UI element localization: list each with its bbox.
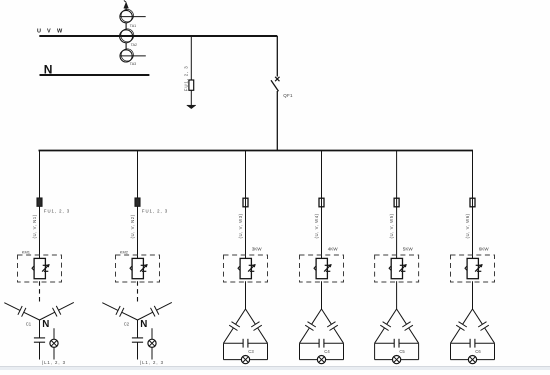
- wire feeder 1 drop from bus: [39, 151, 41, 199]
- svg-text:C2: C2: [124, 322, 130, 327]
- capacitor bank C4 delta bottom side with capacitor: [300, 342, 320, 344]
- svg-text:C4: C4: [324, 349, 330, 354]
- svg-text:FU1, 2, 3: FU1, 2, 3: [183, 65, 188, 91]
- wire fuse to contactor feeder 4: [321, 207, 323, 259]
- fuse FU feeder 3: [243, 198, 248, 207]
- svg-text:C3: C3: [248, 349, 254, 354]
- svg-text:U: U: [37, 29, 41, 35]
- svg-text:C6: C6: [475, 349, 481, 354]
- wire breaker to distribution bus: [276, 91, 278, 151]
- wire TA2-TA3: [125, 43, 127, 50]
- capacitor bank C6 delta bottom side with capacitor: [451, 342, 471, 344]
- svg-text:N: N: [140, 319, 147, 330]
- fuse FU feeder 2: [135, 198, 140, 206]
- wire contactor to capacitor bank 2 (dashed): [137, 281, 139, 304]
- svg-text:C5: C5: [399, 349, 405, 354]
- capacitor bank C4 delta right side: [322, 309, 332, 324]
- capacitor bank C2 star right branch: [138, 312, 153, 320]
- contactor 3KW in dashed enclosure: [224, 255, 268, 282]
- svg-text:TA2: TA2: [131, 43, 137, 47]
- wire feeder 5 drop from bus: [396, 151, 398, 199]
- wire TA1-TA2: [125, 23, 127, 30]
- fuse FU feeder 6: [470, 198, 475, 207]
- capacitor bank C1 star right branch: [40, 312, 55, 320]
- wire feeder 2 drop from bus: [137, 151, 139, 199]
- wire feeder 6 drop from bus: [472, 151, 474, 199]
- capacitor bank C4 delta left side: [312, 309, 322, 324]
- wire contactor to delta bank feeder 4: [321, 281, 323, 309]
- contactor KM2 in dashed enclosure: [116, 255, 160, 282]
- capacitor bank C5 delta right side: [397, 309, 407, 324]
- capacitor bank C6 delta left side: [463, 309, 473, 324]
- svg-text:C1: C1: [26, 322, 32, 327]
- svg-text:(U, V, W3): (U, V, W3): [238, 213, 243, 238]
- bus N neutral busbar: [40, 74, 150, 76]
- svg-text:N: N: [42, 319, 49, 330]
- svg-text:V: V: [47, 29, 51, 35]
- capacitor bank C3 delta right side: [246, 309, 256, 324]
- discharge loop with lamp feeder 4: [299, 343, 301, 359]
- CT TA1 current transformer: [120, 10, 132, 22]
- capacitor bank C5 delta bottom side with capacitor: [375, 342, 395, 344]
- wire fuse to contactor feeder 6: [472, 207, 474, 259]
- svg-text:FU1, 2, 3: FU1, 2, 3: [142, 209, 168, 214]
- capacitor bank C6 delta right side: [473, 309, 483, 324]
- svg-text:(U, V, W5): (U, V, W5): [389, 213, 394, 238]
- wire contactor to delta bank feeder 3: [245, 281, 247, 309]
- svg-text:6KW: 6KW: [479, 247, 490, 252]
- contactor 4KW in dashed enclosure: [300, 255, 344, 282]
- bus UVW main incoming busbar: [39, 35, 277, 37]
- wire contactor to delta bank feeder 5: [396, 281, 398, 309]
- fuse FU feeder 1: [37, 198, 42, 206]
- wire fuse to ground: [190, 90, 192, 105]
- svg-text:(U, V, N1): (U, V, N1): [32, 214, 37, 238]
- contactor 5KW in dashed enclosure: [375, 255, 419, 282]
- wire fuse to contactor feeder 3: [245, 207, 247, 259]
- svg-text:TA3: TA3: [130, 62, 136, 66]
- breaker QF1: [275, 77, 279, 81]
- CT TA3 current transformer: [120, 50, 132, 62]
- wire contactor to delta bank feeder 6: [472, 281, 474, 309]
- lamp branch feeder 2: [151, 328, 153, 339]
- svg-text:TA1: TA1: [130, 24, 136, 28]
- lamp branch feeder 1: [53, 328, 55, 339]
- svg-text:(L1, 2, 3: (L1, 2, 3: [140, 360, 164, 365]
- svg-text:QF1: QF1: [283, 93, 293, 98]
- capacitor bank C3 delta bottom side with capacitor: [224, 342, 244, 344]
- bottom status band: [0, 367, 550, 371]
- wire fuse to contactor feeder 2: [137, 207, 139, 259]
- discharge loop with lamp feeder 3: [223, 343, 225, 359]
- svg-text:KM1: KM1: [22, 249, 31, 254]
- wire bus to fuse FU1,2,3: [190, 36, 192, 80]
- svg-text:3KW: 3KW: [252, 247, 263, 252]
- fuse FU1,2,3 (voltage circuit): [189, 80, 194, 90]
- wire feeder 4 drop from bus: [321, 151, 323, 199]
- wire bus to breaker QF1: [276, 36, 278, 77]
- capacitor bank C2 star left branch: [102, 303, 118, 311]
- svg-text:(U, V, W4): (U, V, W4): [314, 213, 319, 238]
- discharge loop with lamp feeder 5: [374, 343, 376, 359]
- distribution bus: [39, 150, 474, 152]
- fuse FU feeder 5: [394, 198, 399, 207]
- contactor KM1 in dashed enclosure: [18, 255, 62, 282]
- fuse FU feeder 4: [319, 198, 324, 207]
- capacitor neutral leg feeder 2: [137, 320, 139, 338]
- CT TA2 current transformer: [120, 30, 133, 43]
- svg-text:5KW: 5KW: [403, 247, 414, 252]
- ground: [187, 105, 196, 109]
- capacitor neutral leg feeder 1: [39, 320, 41, 338]
- svg-text:(U, V, W6): (U, V, W6): [465, 213, 470, 238]
- wire feeder 3 drop from bus: [245, 151, 247, 199]
- wire fuse to contactor feeder 5: [396, 207, 398, 259]
- supply arrow: [125, 4, 127, 11]
- wire fuse to contactor feeder 1: [39, 207, 41, 259]
- capacitor bank C5 delta left side: [387, 309, 397, 324]
- svg-text:KM2: KM2: [120, 249, 129, 254]
- svg-text:4KW: 4KW: [328, 247, 339, 252]
- wire contactor to capacitor bank 1 (dashed): [39, 281, 41, 304]
- capacitor bank C3 delta left side: [236, 309, 246, 324]
- capacitor bank C1 star left branch: [4, 303, 20, 311]
- svg-text:FU1, 2, 3: FU1, 2, 3: [44, 209, 70, 214]
- svg-text:(U, V, N2): (U, V, N2): [130, 214, 135, 238]
- svg-text:W: W: [57, 29, 63, 35]
- discharge loop with lamp feeder 6: [450, 343, 452, 359]
- contactor 6KW in dashed enclosure: [451, 255, 495, 282]
- svg-text:(L1, 2, 3: (L1, 2, 3: [42, 360, 66, 365]
